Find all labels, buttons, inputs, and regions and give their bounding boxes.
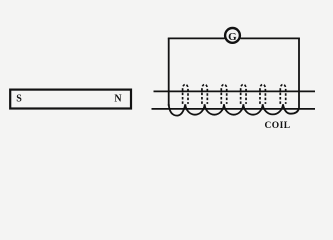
coil front arc 3 <box>205 104 224 114</box>
svg-text:N: N <box>114 93 122 104</box>
coil back turn 1 (dashed) <box>183 84 188 104</box>
wire right vertical <box>298 38 300 109</box>
coil front arc 6 <box>263 104 283 114</box>
coil front arc 1 (lead-in from left wire) <box>169 104 186 116</box>
coil back turn 5 (dashed) <box>260 84 265 103</box>
wire left vertical <box>168 38 170 106</box>
coil back turn 3 (dashed) <box>221 84 226 104</box>
coil back turn 6 (dashed) <box>280 84 285 104</box>
svg-text:S: S <box>16 93 22 104</box>
coil front arc 4 <box>224 104 243 114</box>
coil front arc 2 <box>185 104 204 114</box>
coil back turn 2 (dashed) <box>202 84 207 104</box>
svg-text:G: G <box>228 31 237 43</box>
coil back turn 4 (dashed) <box>241 84 246 104</box>
wire top left segment <box>168 37 225 39</box>
galvanometer U1 circle <box>225 28 240 43</box>
svg-text:COIL: COIL <box>265 121 291 131</box>
coil front arc 7 (lead-out to right wire) <box>283 104 299 113</box>
coil front arc 5 <box>243 104 262 114</box>
bar magnet body <box>10 90 131 109</box>
core rail top <box>154 90 316 92</box>
wire top right segment <box>240 37 300 39</box>
core rail bottom <box>152 108 316 110</box>
